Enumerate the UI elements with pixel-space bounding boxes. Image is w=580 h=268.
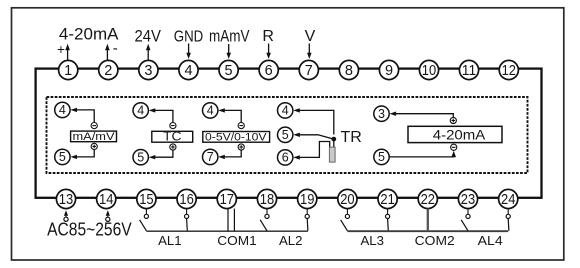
node 4 (TR input): [278, 103, 293, 118]
AL1/AL2 common bus: [146, 230, 308, 232]
minus pin of TC: [170, 123, 176, 129]
svg-text:4: 4: [184, 63, 192, 79]
relay switch at terminal 21: [386, 209, 390, 231]
terminal 5: [219, 60, 238, 79]
terminal 11: [459, 60, 478, 79]
wire TC plus to node 5: [149, 150, 173, 159]
wire arrow into terminal 3: [146, 44, 151, 61]
svg-text:COM1: COM1: [217, 233, 257, 248]
box mA/mV: [71, 131, 117, 143]
svg-text:18: 18: [260, 192, 274, 208]
box 0-5V/0-10V: [203, 131, 270, 143]
relay switch at terminal 15: [140, 209, 149, 231]
svg-text:GND: GND: [174, 29, 204, 46]
svg-text:4: 4: [59, 103, 66, 117]
svg-text:14: 14: [99, 192, 113, 208]
terminal 4: [179, 60, 198, 79]
node 4 (TC input): [133, 103, 148, 118]
terminal 16: [177, 189, 196, 208]
node 4 (0-5V/0-10V input): [203, 103, 218, 118]
wire arrow into terminal 5: [226, 44, 231, 59]
svg-text:10: 10: [422, 63, 436, 79]
relay switch at terminal 19: [305, 209, 309, 231]
svg-text:4: 4: [282, 104, 289, 118]
svg-text:24: 24: [501, 192, 515, 208]
svg-text:8: 8: [345, 63, 353, 79]
plus pin of TC: [170, 144, 176, 150]
COM2 wire: [427, 209, 429, 232]
wire junction to sensor body: [333, 139, 335, 147]
wire arrow into terminal 6: [266, 44, 271, 59]
terminal 12: [499, 60, 518, 79]
svg-text:12: 12: [502, 63, 516, 79]
wire node6 to sensor body: [293, 142, 330, 160]
svg-text:5: 5: [282, 128, 289, 142]
terminal 8: [339, 60, 358, 79]
terminal 2: [99, 60, 118, 79]
terminal 14: [97, 189, 116, 208]
svg-text:3: 3: [144, 63, 152, 79]
node 5 (TR input): [278, 127, 293, 142]
box TC: [152, 129, 193, 144]
node 5 (TC input): [133, 150, 148, 165]
svg-text:+: +: [57, 42, 65, 57]
svg-text:24V: 24V: [134, 27, 161, 46]
minus pin of 0-5V/0-10V: [238, 123, 244, 129]
node 4 (mA/mV input): [55, 102, 70, 117]
wire arrow into terminal 2: [105, 44, 110, 61]
svg-text:AL1: AL1: [158, 233, 181, 248]
svg-text:4: 4: [207, 104, 214, 118]
svg-text:1: 1: [64, 63, 72, 79]
svg-text:TR: TR: [341, 129, 362, 146]
svg-text:AC85~256V: AC85~256V: [47, 219, 132, 239]
terminal 19: [298, 189, 317, 208]
terminal 15: [137, 189, 156, 208]
svg-text:7: 7: [207, 150, 214, 164]
terminal 13: [56, 189, 75, 208]
box 4-20mA: [408, 126, 502, 142]
svg-text:23: 23: [461, 192, 475, 208]
wire arrow into terminal 1: [65, 44, 70, 61]
relay switch at terminal 20: [341, 209, 350, 231]
terminal 1: [59, 60, 78, 79]
terminal 18: [257, 189, 276, 208]
minus pin of mA/mV: [91, 123, 97, 129]
svg-text:15: 15: [139, 192, 153, 208]
node 6 (TR input): [278, 150, 293, 165]
svg-text:AL2: AL2: [279, 233, 302, 248]
AC supply pin terminal 14: [106, 210, 110, 221]
plus pin of mA/mV: [91, 143, 97, 149]
wire node4 to TR junction: [293, 108, 334, 134]
svg-text:AL3: AL3: [360, 233, 383, 248]
svg-text:0-5V/0-10V: 0-5V/0-10V: [205, 131, 267, 143]
terminal 24: [499, 189, 518, 208]
wire arrow into terminal 4: [186, 44, 191, 59]
terminal 9: [379, 60, 398, 79]
wire node4 to mA/mV minus: [70, 108, 94, 123]
wire node5 to 4-20mA minus: [389, 151, 456, 157]
node 7 (0-5V/0-10V input): [203, 149, 218, 164]
minus pin of 4-20mA: [451, 144, 457, 150]
input configuration dashed box: [47, 97, 528, 173]
TR sensor body: [329, 147, 335, 162]
relay switch at terminal 23: [461, 209, 470, 231]
svg-text:7: 7: [305, 63, 313, 79]
svg-text:5: 5: [378, 150, 385, 164]
AC supply pin terminal 13: [64, 210, 68, 221]
svg-text:R: R: [262, 28, 274, 45]
terminal 17: [217, 189, 236, 208]
svg-text:17: 17: [220, 192, 234, 208]
svg-text:4-20mA: 4-20mA: [433, 127, 486, 143]
terminal 20: [338, 189, 357, 208]
terminal 21: [378, 189, 397, 208]
wire arrow into terminal 7: [307, 44, 312, 59]
node 5 (mA/mV input): [55, 149, 70, 164]
wire node4 to 0-5V minus: [218, 108, 241, 122]
terminal 22: [418, 189, 437, 208]
svg-text:3: 3: [378, 107, 385, 121]
wire node3 to 4-20mA plus: [390, 112, 454, 118]
svg-text:11: 11: [462, 63, 476, 79]
svg-text:2: 2: [104, 63, 112, 79]
node 3 (4-20mA output): [374, 106, 389, 121]
svg-text:16: 16: [179, 192, 193, 208]
wire node5 to TR junction: [293, 133, 334, 140]
TR junction node: [331, 137, 336, 142]
svg-text:5: 5: [59, 150, 66, 164]
svg-text:5: 5: [137, 151, 144, 165]
svg-text:4: 4: [137, 104, 144, 118]
svg-text:mAmV: mAmV: [209, 28, 250, 46]
terminal 10: [419, 60, 438, 79]
svg-text:-: -: [113, 40, 118, 57]
svg-text:22: 22: [421, 192, 435, 208]
svg-text:V: V: [305, 28, 316, 45]
svg-text:13: 13: [59, 192, 73, 208]
meter body outline: [36, 69, 542, 198]
terminal 6: [259, 60, 278, 79]
relay switch at terminal 16: [185, 209, 189, 231]
svg-text:20: 20: [340, 192, 354, 208]
svg-text:5: 5: [225, 63, 233, 79]
svg-text:mA/mV: mA/mV: [73, 131, 116, 143]
svg-text:COM2: COM2: [415, 233, 455, 248]
wire 0-5V plus to node 7: [218, 150, 241, 159]
svg-text:TC: TC: [163, 129, 182, 144]
terminal 3: [139, 60, 158, 79]
wire mA/mV plus to node 5: [70, 150, 94, 160]
svg-text:4-20mA: 4-20mA: [59, 26, 119, 44]
AL3/AL4 common bus: [347, 230, 508, 232]
terminal 23: [458, 189, 477, 208]
svg-text:9: 9: [385, 63, 393, 79]
svg-text:21: 21: [380, 192, 394, 208]
relay switch at terminal 18: [260, 209, 269, 231]
COM1 double wire: [228, 209, 234, 232]
svg-text:19: 19: [300, 192, 314, 208]
terminal 7: [299, 60, 318, 79]
relay switch at terminal 24: [506, 209, 510, 231]
plus pin of 0-5V/0-10V: [238, 144, 244, 150]
svg-text:AL4: AL4: [478, 233, 503, 248]
svg-text:6: 6: [282, 151, 289, 165]
node 5 (4-20mA output): [374, 149, 389, 164]
plus pin of 4-20mA: [450, 117, 456, 123]
wire node4 to TC minus: [149, 108, 173, 122]
svg-text:6: 6: [265, 63, 273, 79]
